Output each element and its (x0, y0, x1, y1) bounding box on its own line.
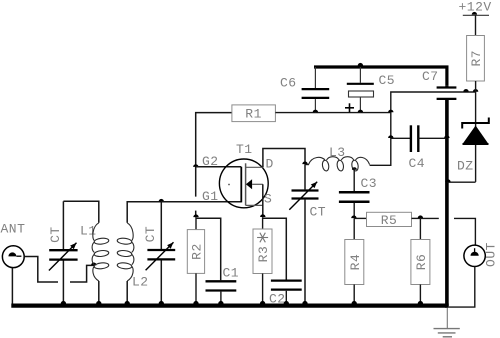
svg-text:R7: R7 (469, 50, 484, 67)
resistor R3 (with asterisk) (262, 217, 264, 229)
supply rail +12V (463, 14, 489, 16)
node drain/L3/CT3 (302, 161, 307, 164)
svg-text:S: S (264, 191, 272, 206)
wire L1 bottom to bus (98, 281, 100, 304)
ground symbol (446, 308, 448, 329)
wire R1 left to divider (hops over G1) (196, 113, 232, 197)
node C4 left (388, 135, 393, 138)
antenna input source ANT (2, 246, 24, 268)
capacitor C4 (391, 137, 411, 139)
resistor R7 (475, 15, 477, 35)
svg-text:C4: C4 (409, 156, 426, 171)
svg-text:OUT: OUT (484, 242, 499, 267)
capacitor C7 (437, 86, 457, 88)
wire R1 right (275, 112, 390, 114)
ground bus (11, 304, 448, 308)
node wire/R7 lead (473, 89, 478, 92)
node R3-bus (260, 301, 265, 304)
svg-text:C1: C1 (223, 266, 240, 281)
wire S to C2 (263, 218, 287, 279)
svg-text:T1: T1 (236, 142, 253, 157)
svg-text:L1: L1 (80, 224, 97, 239)
node CT1-bus (61, 301, 66, 304)
svg-text:R2: R2 (190, 243, 205, 260)
wire L2 bottom to bus (126, 281, 128, 304)
svg-text:R4: R4 (348, 254, 363, 271)
svg-text:R5: R5 (381, 213, 398, 228)
node R6-bus (418, 301, 423, 304)
wire to C1 (196, 218, 221, 280)
svg-text:CT: CT (48, 226, 63, 243)
resistor R2 (195, 217, 197, 229)
svg-text:R6: R6 (414, 254, 429, 271)
wire L3 right (370, 92, 476, 165)
wire G1 net (161, 201, 241, 203)
svg-text:G1: G1 (202, 189, 219, 204)
node R2-bus (193, 301, 198, 304)
thick top bus (314, 67, 447, 85)
wire ANT tap to L1 (hops over CT lead) (24, 257, 58, 283)
thick ground-return vertical (445, 85, 448, 86)
svg-text:R3: R3 (256, 246, 271, 263)
node C2-bus (284, 301, 289, 304)
inductor L2 (127, 223, 134, 281)
node G1/L2/CT2 (159, 199, 164, 202)
node C4 right on thick line (444, 135, 449, 138)
svg-text:CT: CT (143, 226, 158, 243)
svg-text:C6: C6 (280, 76, 297, 91)
electrolytic capacitor C5 (359, 67, 361, 83)
wire L2 top (127, 202, 161, 223)
node L2-bus (125, 301, 130, 304)
inductor L3 (305, 164, 309, 166)
node L3/C3 (352, 167, 357, 169)
svg-text:L2: L2 (132, 275, 149, 290)
node C1-bus (218, 301, 223, 304)
resistor R6 (419, 218, 421, 239)
capacitor C1 (206, 280, 237, 282)
svg-text:D: D (266, 157, 274, 172)
node L1-bus (96, 301, 101, 304)
resistor R1 (232, 105, 276, 122)
wire R5 to OUT (hops over thick line) (420, 217, 438, 219)
svg-text:G2: G2 (202, 154, 219, 169)
capacitor C2 (271, 279, 302, 281)
node CT2-bus (159, 301, 164, 304)
wire source (262, 184, 264, 217)
output connector OUT (464, 245, 485, 266)
svg-text:R1: R1 (245, 106, 262, 121)
svg-text:DZ: DZ (457, 158, 474, 173)
node C5 top (358, 63, 363, 66)
wire DZ anode to thick line (447, 181, 475, 183)
node C3/R5/R4 (351, 215, 356, 218)
capacitor C3 (353, 168, 355, 191)
wire G2 (196, 166, 242, 168)
wire CT1 top to L1 top (63, 201, 98, 223)
node DZ/thick line (445, 179, 450, 182)
trimmer capacitor CT2 (160, 202, 162, 249)
transistor T1 dual-gate MOSFET (219, 159, 268, 208)
trimmer capacitor CT at L1 (62, 201, 64, 249)
plus sign of C5 (345, 107, 354, 109)
resistor R5 (354, 217, 367, 219)
node R2/C1 (193, 214, 198, 217)
trimmer capacitor CT at drain (304, 164, 306, 189)
node R4-bus (352, 301, 357, 304)
resistor R4 (353, 218, 355, 239)
inductor L1 (92, 223, 99, 281)
svg-text:CT: CT (310, 205, 327, 220)
svg-text:ANT: ANT (1, 222, 26, 237)
node S junction (260, 214, 265, 217)
node C5 to R1 wire (358, 110, 363, 113)
node R1 wire to vertical (388, 110, 393, 113)
wire drain (263, 149, 305, 168)
node G2 branch (193, 164, 198, 167)
zener diode DZ (475, 92, 477, 182)
node tap on L1 (91, 263, 96, 266)
node C6 to R1 wire (313, 110, 318, 113)
svg-text:C7: C7 (422, 69, 439, 84)
svg-text:C5: C5 (379, 73, 396, 88)
capacitor C6 (314, 67, 316, 88)
wire OUT bottom to ground (449, 267, 475, 308)
wire ANT to ground bus (11, 268, 13, 304)
node CT3-bus (302, 301, 307, 304)
svg-text:C3: C3 (361, 176, 378, 191)
node on 92-wire (463, 89, 468, 92)
node R5/R6 (418, 215, 423, 218)
